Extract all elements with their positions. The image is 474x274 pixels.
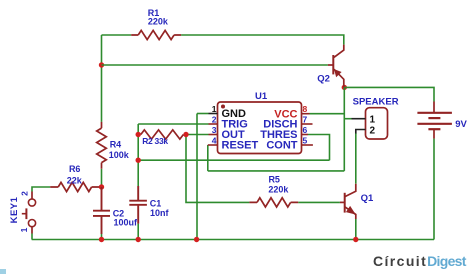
- svg-text:R4: R4: [110, 139, 122, 149]
- wire OUT down to R5 row: [186, 135, 249, 203]
- svg-text:5: 5: [303, 135, 308, 145]
- svg-text:220k: 220k: [268, 185, 289, 195]
- svg-text:CONT: CONT: [266, 140, 297, 152]
- svg-text:KEY1: KEY1: [9, 196, 20, 223]
- resistor R2 33k: [141, 130, 184, 139]
- pin 6 stub THRES: [302, 134, 309, 136]
- node R1/R4/Q2-base junction: [99, 62, 104, 67]
- speaker pin 2 stub: [356, 130, 366, 134]
- wire battery- down: [433, 139, 435, 240]
- svg-text:9V: 9V: [455, 119, 467, 130]
- speaker LS1 body: [366, 108, 388, 139]
- svg-text:1: 1: [19, 227, 29, 232]
- svg-text:7: 7: [303, 114, 308, 124]
- wire KEY1 bottom to rail: [31, 234, 33, 240]
- wire speaker pin2 to Q1 collector: [355, 133, 357, 184]
- svg-text:1: 1: [370, 115, 376, 126]
- svg-text:6: 6: [303, 125, 308, 135]
- wire GND pin1: [197, 113, 209, 115]
- node THRES tap: [136, 158, 141, 163]
- svg-text:RESET: RESET: [222, 140, 259, 152]
- svg-text:100uf: 100uf: [114, 218, 139, 228]
- svg-text:1: 1: [212, 104, 217, 114]
- transistor Q2 PNP: [328, 45, 344, 88]
- node C1/ground rail: [136, 237, 141, 242]
- resistor R4 100k: [97, 122, 107, 169]
- wire Q2 base net: [102, 64, 328, 66]
- svg-text:CírcuitDigest: CírcuitDigest: [373, 253, 467, 269]
- wire top rail right of R1: [181, 35, 344, 45]
- corner watermark: [0, 269, 6, 274]
- wire KEY1 top corner: [32, 187, 50, 192]
- resistor R1 220k: [131, 30, 181, 39]
- wire TRIG pin2: [138, 123, 208, 125]
- wire VCC vertical: [343, 87, 345, 170]
- capacitor C1 10nf: [129, 186, 147, 224]
- wire left vertical to R4: [101, 35, 103, 122]
- wire R6 right to junction: [99, 186, 101, 188]
- svg-text:U1: U1: [255, 91, 268, 102]
- node GND-pin/ground rail: [194, 237, 199, 242]
- wire reset loop vertical: [207, 145, 209, 171]
- svg-text:4: 4: [212, 135, 217, 145]
- svg-text:220k: 220k: [148, 16, 169, 26]
- node R2 left / TRIG: [136, 132, 141, 137]
- svg-text:Q2: Q2: [317, 74, 330, 85]
- svg-text:SPEAKER: SPEAKER: [353, 97, 399, 108]
- node Q2 emitter / VCC junction: [342, 85, 347, 90]
- battery 9V: [417, 102, 452, 139]
- svg-text:2: 2: [212, 114, 217, 124]
- pin 4 stub RESET: [208, 144, 218, 146]
- pin 3 stub OUT: [209, 134, 218, 136]
- pin 7 stub DISCH: [302, 123, 313, 125]
- node R6/R4/C2 junction: [99, 184, 104, 189]
- pin 2 stub TRIG: [209, 123, 218, 125]
- svg-text:R6: R6: [69, 164, 81, 174]
- svg-text:8: 8: [303, 104, 308, 114]
- wire R5 to Q1 base: [298, 201, 340, 203]
- node R2 right / OUT: [183, 132, 188, 137]
- wire VCC to battery+: [344, 87, 434, 101]
- wire THRES pin6 right: [308, 135, 330, 161]
- wire top rail left of R1: [102, 34, 132, 36]
- wire THRES return: [138, 159, 329, 161]
- wire R4 bottom to junction: [101, 169, 103, 187]
- wire bottom ground rail: [32, 239, 434, 241]
- svg-text:2: 2: [20, 191, 30, 196]
- resistor R6 22k: [50, 182, 99, 191]
- speaker pin 1 stub: [352, 118, 366, 120]
- svg-text:R2 33k: R2 33k: [142, 136, 168, 146]
- pin 1 stub GND: [209, 113, 218, 115]
- wire GND vertical: [196, 114, 198, 240]
- svg-text:2: 2: [370, 126, 376, 137]
- svg-text:3: 3: [212, 125, 217, 135]
- svg-text:C1: C1: [150, 199, 162, 209]
- wire reset loop horizontal: [208, 170, 344, 172]
- capacitor C2 100uf: [93, 187, 110, 234]
- node C2/ground rail: [99, 237, 104, 242]
- wire OUT pin3: [186, 134, 209, 136]
- wire to speaker pin1: [344, 118, 351, 120]
- svg-text:100k: 100k: [109, 150, 130, 160]
- svg-text:Q1: Q1: [361, 193, 374, 204]
- op-amp U1 555 timer body: [218, 102, 302, 154]
- pushbutton KEY1: [22, 192, 36, 234]
- svg-text:10nf: 10nf: [150, 208, 170, 218]
- wire pin8 VCC: [310, 113, 345, 115]
- node Q1 emitter/ground rail: [353, 237, 358, 242]
- wire Q1 emitter to rail: [355, 219, 357, 240]
- U1 pin1 marker: [221, 105, 225, 109]
- resistor R5 220k: [249, 198, 298, 207]
- svg-text:22k: 22k: [67, 175, 83, 185]
- wire C1 bottom to rail: [137, 224, 139, 240]
- pin 8 stub VCC: [302, 113, 310, 115]
- svg-text:R5: R5: [268, 175, 280, 185]
- pin 5 stub CONT: [302, 144, 313, 146]
- wire C2 bottom to rail: [101, 234, 103, 240]
- wire TRIG column: [137, 124, 139, 186]
- transistor Q1 NPN: [340, 184, 356, 219]
